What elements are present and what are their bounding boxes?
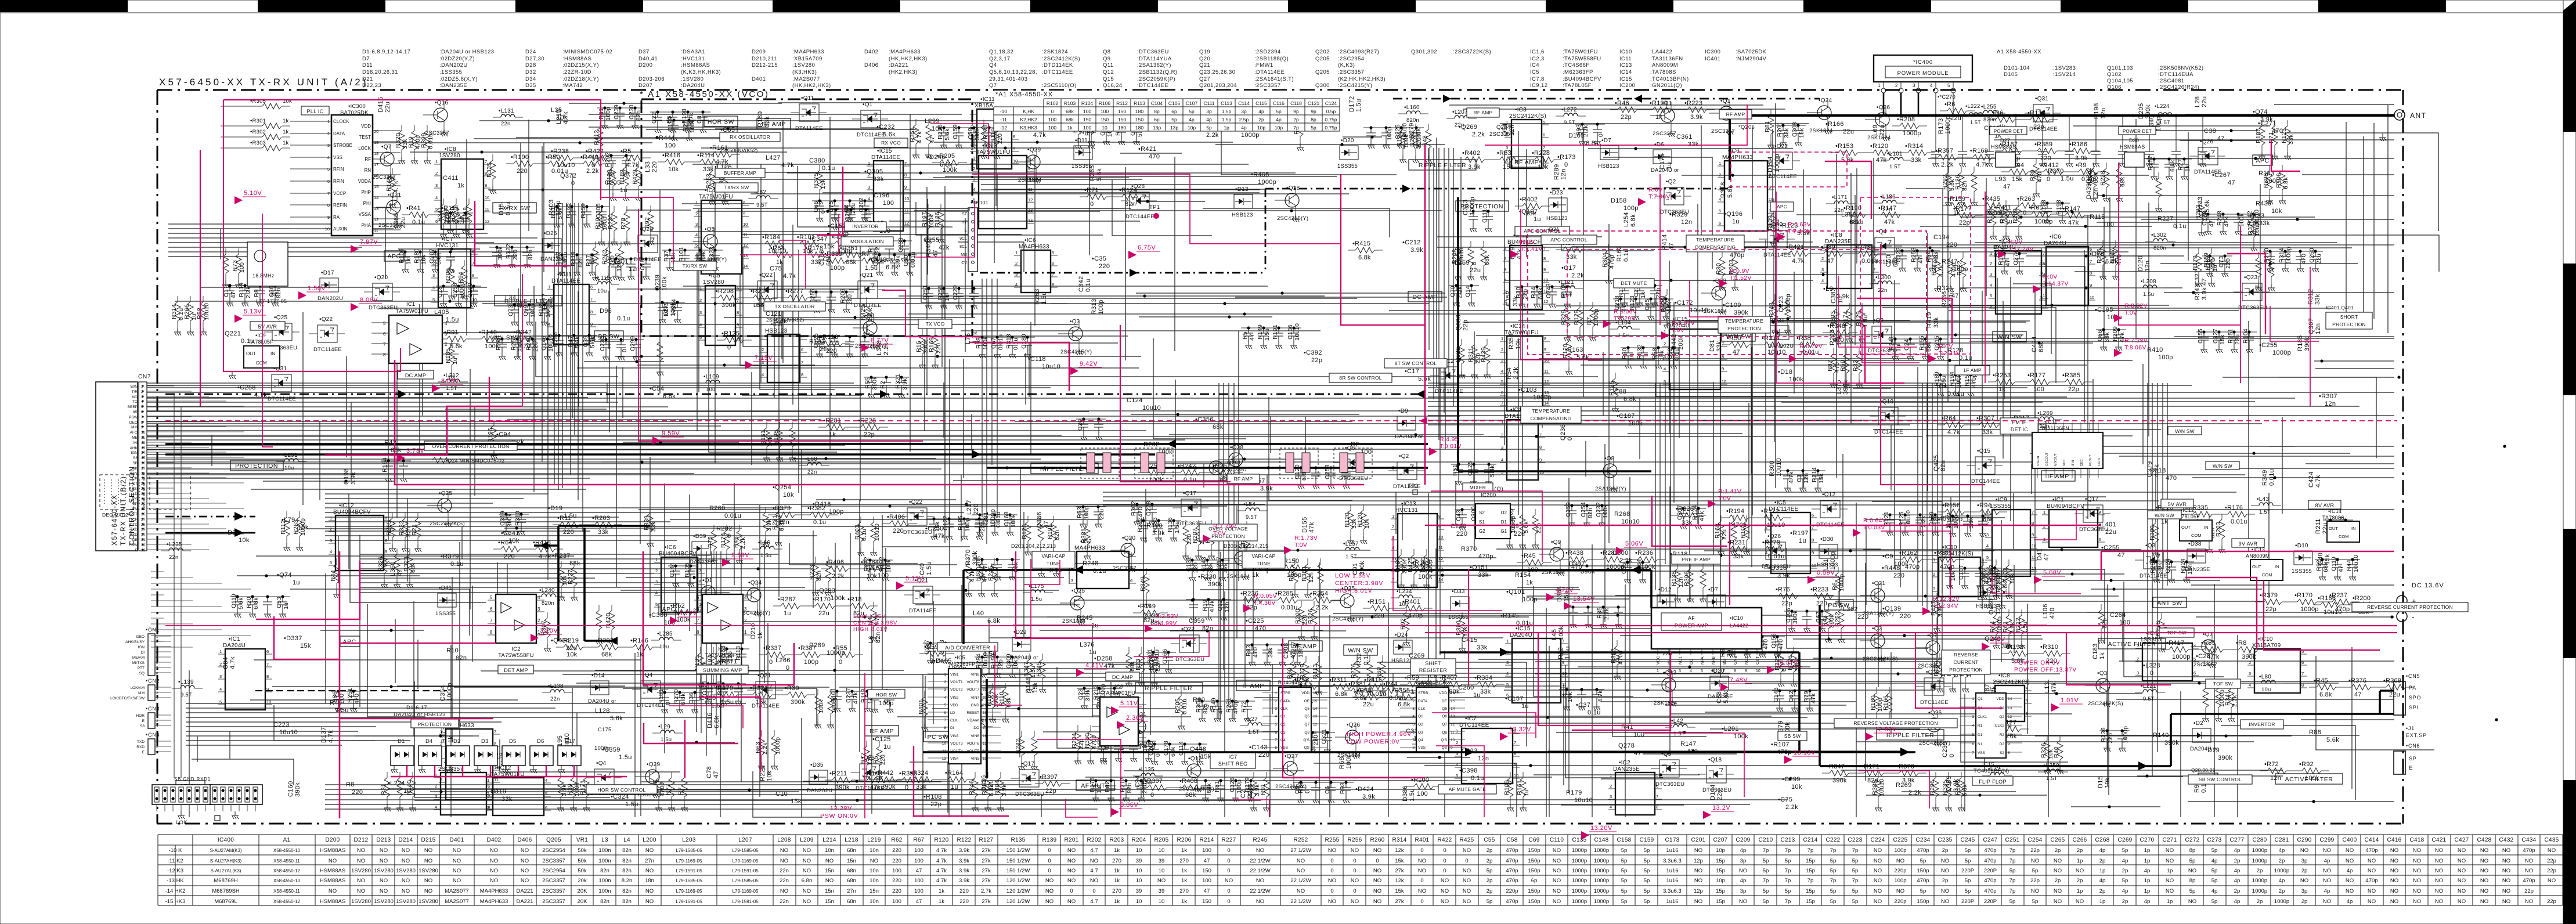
svg-text:C111: C111: [1481, 209, 1488, 223]
svg-text:•IC2: •IC2: [1080, 539, 1092, 545]
svg-text:•Q22: •Q22: [909, 499, 922, 506]
svg-text:9: 9: [385, 549, 387, 554]
svg-text:22p: 22p: [2524, 888, 2534, 894]
svg-text:CLK: CLK: [1280, 707, 1288, 711]
svg-text:R300: R300: [1769, 461, 1776, 477]
svg-text:•CN6: •CN6: [2406, 743, 2420, 749]
svg-text:•R30: •R30: [785, 685, 799, 692]
svg-text:82n: 82n: [600, 868, 609, 874]
svg-text:ME: ME: [132, 436, 138, 440]
svg-text:100: 100: [1633, 731, 1644, 738]
svg-text:•R197: •R197: [1790, 530, 1809, 537]
svg-text:1000p: 1000p: [2300, 606, 2319, 613]
svg-text:C115: C115: [1255, 100, 1267, 106]
svg-text:1000p: 1000p: [1572, 868, 1587, 874]
svg-text:NO: NO: [1045, 898, 1054, 905]
svg-text:ANT: ANT: [2410, 111, 2427, 120]
svg-text:10p: 10p: [1188, 125, 1196, 131]
svg-text:IC6: IC6: [1114, 684, 1123, 690]
svg-text:1F AMP: 1F AMP: [1963, 367, 1982, 373]
svg-text:5p: 5p: [2122, 847, 2128, 854]
svg-text:6: 6: [1543, 132, 1545, 138]
svg-text::2SC3722K(S): :2SC3722K(S): [1453, 49, 1491, 55]
svg-text:D210,211: D210,211: [752, 56, 777, 62]
svg-text:APTT: APTT: [128, 512, 138, 517]
svg-text:Q21: Q21: [1549, 226, 1560, 233]
svg-text:22u: 22u: [1363, 701, 1374, 708]
svg-text:•Q6: •Q6: [864, 313, 875, 319]
svg-text:NO: NO: [780, 888, 788, 894]
svg-text:NO: NO: [803, 858, 811, 864]
svg-text:33k: 33k: [1480, 688, 1491, 695]
svg-text:4: 4: [1456, 762, 1458, 767]
svg-text:22u: 22u: [1879, 125, 1886, 136]
svg-text:10: 10: [1136, 898, 1142, 905]
svg-text:GND: GND: [1734, 655, 1738, 665]
svg-text:NO: NO: [424, 847, 432, 854]
svg-text:150: 150: [1202, 868, 1211, 874]
svg-text:6.8k: 6.8k: [2319, 691, 2332, 698]
svg-text:R19: R19: [1202, 600, 1208, 611]
svg-text:4: 4: [1982, 557, 1984, 562]
svg-text:1000p: 1000p: [1594, 888, 1609, 894]
svg-text:L79-1169-05: L79-1169-05: [733, 858, 759, 864]
svg-text:150 1/2W: 150 1/2W: [1006, 868, 1030, 874]
svg-text:1.5T: 1.5T: [1673, 731, 1685, 737]
svg-text:•C118: •C118: [1028, 356, 1046, 363]
svg-text:2: 2: [2040, 259, 2043, 264]
svg-text:68k: 68k: [1213, 424, 1224, 431]
svg-text:3: 3: [435, 183, 438, 188]
svg-text:•R184: •R184: [762, 234, 780, 241]
svg-text:DTC363EU: DTC363EU: [1655, 781, 1684, 788]
svg-text:L79-1591-05: L79-1591-05: [676, 868, 702, 874]
svg-text:BU4094BCFV: BU4094BCFV: [2047, 503, 2084, 510]
svg-text:5: 5: [1719, 208, 1721, 214]
svg-text:68k: 68k: [1185, 792, 1196, 799]
svg-text:5p: 5p: [1763, 898, 1769, 905]
svg-text:L40: L40: [973, 610, 984, 617]
svg-text:R:0V: R:0V: [1521, 239, 1535, 246]
svg-text:TA75W558FU: TA75W558FU: [705, 652, 740, 659]
svg-text:R186: R186: [934, 212, 941, 227]
svg-text:•Q7: •Q7: [1927, 633, 1938, 639]
svg-text:C327: C327: [2194, 270, 2201, 286]
svg-text:C94: C94: [1134, 775, 1141, 788]
svg-text:100p: 100p: [1098, 299, 1105, 315]
svg-text:NO: NO: [1441, 888, 1449, 894]
svg-text:R194: R194: [1396, 132, 1403, 147]
svg-text:L28: L28: [2194, 96, 2201, 107]
svg-text:33k: 33k: [1716, 341, 1723, 352]
svg-text:NO: NO: [2166, 847, 2174, 854]
svg-text:R230: R230: [607, 214, 614, 229]
svg-text:270: 270: [1179, 858, 1189, 864]
svg-text:100: 100: [1202, 878, 1211, 884]
svg-text:NO: NO: [402, 888, 410, 894]
svg-text:•L101: •L101: [1887, 151, 1903, 157]
svg-text:•R334: •R334: [1474, 674, 1492, 681]
svg-text:19: 19: [374, 140, 378, 145]
svg-text:C9: C9: [1294, 786, 1301, 794]
svg-text:8.06V: 8.06V: [1120, 802, 1138, 808]
svg-text:*IC400: *IC400: [1913, 59, 1933, 66]
svg-text:22u: 22u: [2315, 254, 2322, 264]
svg-text:5: 5: [432, 297, 435, 302]
svg-text:•C324: •C324: [611, 793, 629, 800]
svg-text:R175: R175: [1089, 777, 1096, 792]
svg-text:•IC10: •IC10: [1730, 615, 1743, 621]
svg-text:2p: 2p: [1487, 858, 1493, 864]
svg-text:1.5u: 1.5u: [760, 553, 771, 559]
svg-text:1: 1: [699, 286, 702, 291]
svg-text:13p: 13p: [1170, 125, 1178, 131]
svg-text:2SK508NV(K52): 2SK508NV(K52): [766, 317, 804, 323]
svg-text:•Q196: •Q196: [1724, 211, 1742, 218]
svg-text:2p: 2p: [2234, 888, 2241, 894]
svg-text:50k: 50k: [578, 858, 587, 864]
svg-text:•Q269: •Q269: [1459, 124, 1477, 131]
svg-text:D133: D133: [2197, 197, 2204, 213]
svg-text:IC11: IC11: [1619, 56, 1632, 62]
svg-text::2SK508NV(K52): :2SK508NV(K52): [2158, 65, 2203, 71]
svg-text:10u10: 10u10: [1621, 518, 1640, 525]
svg-text:•R354: •R354: [1310, 590, 1328, 597]
svg-text:1000p: 1000p: [446, 683, 453, 701]
svg-text:1: 1: [968, 208, 970, 212]
svg-text:47: 47: [1204, 888, 1210, 894]
svg-text::DAN235E: :DAN235E: [439, 82, 467, 89]
svg-text:R413: R413: [1312, 664, 1319, 679]
svg-text:•L291: •L291: [1722, 726, 1739, 732]
svg-text:5p: 5p: [1644, 868, 1650, 874]
svg-text:390k: 390k: [1208, 581, 1222, 588]
svg-text:8T SW CONTROL: 8T SW CONTROL: [1395, 360, 1437, 366]
svg-text:68k: 68k: [2092, 172, 2099, 183]
svg-text:0: 0: [621, 349, 628, 352]
svg-text:0.1u: 0.1u: [412, 219, 425, 226]
svg-text:Q425: Q425: [1933, 455, 1940, 471]
svg-text:0.1u: 0.1u: [1588, 709, 1601, 716]
svg-text:LOW:1.55V: LOW:1.55V: [1335, 572, 1370, 579]
svg-text:1SV280: 1SV280: [439, 153, 460, 159]
svg-text:•R357: •R357: [1935, 147, 1953, 154]
svg-text:0: 0: [571, 180, 575, 187]
svg-text:5p: 5p: [1189, 109, 1195, 114]
svg-text:•Q8: •Q8: [1604, 456, 1615, 462]
svg-text:POWER MODULE: POWER MODULE: [1897, 70, 1949, 77]
svg-text:27k: 27k: [1395, 868, 1404, 874]
svg-text:4: 4: [432, 285, 435, 290]
svg-text:•L42: •L42: [1671, 718, 1683, 724]
svg-text::DAN202U: :DAN202U: [439, 62, 468, 68]
svg-text:1SV280: 1SV280: [396, 868, 416, 874]
svg-text:1SV280: 1SV280: [418, 898, 438, 905]
svg-text:C205: C205: [1148, 741, 1154, 756]
svg-text:1p: 1p: [2144, 888, 2151, 894]
svg-text:100p: 100p: [879, 700, 894, 707]
svg-text:100p: 100p: [1894, 847, 1906, 854]
svg-text:MODULATION: MODULATION: [850, 239, 884, 244]
svg-text:R198: R198: [2055, 200, 2062, 215]
svg-text:4p: 4p: [2234, 847, 2241, 854]
svg-text:R245: R245: [1077, 615, 1093, 622]
svg-text:R314: R314: [171, 304, 178, 319]
svg-text:K,HK: K,HK: [1023, 109, 1034, 114]
svg-text:R81: R81: [1214, 781, 1221, 792]
svg-text:1000p: 1000p: [1594, 898, 1609, 905]
svg-text:22p: 22p: [2265, 606, 2276, 613]
svg-text:•L240: •L240: [539, 587, 555, 594]
svg-text:NO: NO: [1373, 888, 1381, 894]
svg-text:•Q24: •Q24: [748, 580, 762, 586]
svg-text:0.59V: 0.59V: [1817, 569, 1835, 576]
svg-text::02DZ5.6(X,Y): :02DZ5.6(X,Y): [439, 76, 478, 82]
svg-text:5.06V: 5.06V: [1625, 540, 1643, 547]
svg-text:L366: L366: [393, 213, 400, 228]
svg-text:0: 0: [1048, 847, 1051, 854]
svg-text:R320: R320: [395, 133, 402, 148]
svg-text:470p: 470p: [1940, 564, 1954, 571]
svg-text:•R379: •R379: [2260, 592, 2278, 599]
svg-text:•R219: •R219: [561, 637, 579, 644]
svg-text:22p: 22p: [2101, 618, 2108, 629]
svg-text:2SC2954: 2SC2954: [542, 847, 565, 854]
svg-text:R204: R204: [1131, 837, 1146, 843]
svg-text:•R223: •R223: [1684, 100, 1702, 107]
svg-text:C45: C45: [1644, 299, 1651, 311]
svg-text:6.8k: 6.8k: [680, 693, 687, 705]
svg-text:T:0V: T:0V: [1799, 350, 1812, 357]
svg-text:NO: NO: [1351, 898, 1359, 905]
svg-text:MA2S077: MA2S077: [445, 888, 469, 894]
svg-text:DAN235E: DAN235E: [1613, 766, 1640, 773]
svg-text:•IC8: •IC8: [445, 146, 456, 153]
svg-text:15p: 15p: [1806, 898, 1815, 905]
svg-text:D2: D2: [2000, 742, 2005, 746]
svg-text:R213: R213: [981, 780, 988, 795]
svg-text:(HK,HK2,HK3): (HK,HK2,HK3): [889, 56, 928, 62]
svg-text:9: 9: [904, 185, 907, 190]
svg-text:2SC2412K(S): 2SC2412K(S): [2088, 701, 2123, 707]
svg-text:•R194: •R194: [1726, 508, 1744, 515]
svg-text:M62363FP: M62363FP: [949, 661, 976, 667]
svg-text:•IC300: •IC300: [348, 103, 366, 110]
svg-text:0: 0: [1070, 888, 1073, 894]
svg-text:22p: 22p: [930, 801, 941, 808]
svg-text:C159: C159: [1639, 837, 1654, 843]
svg-text:TXD: TXD: [130, 528, 138, 532]
svg-text:R6: R6: [1831, 582, 1838, 590]
svg-text:6.8n: 6.8n: [802, 878, 813, 884]
svg-text:D30: D30: [2129, 138, 2139, 143]
svg-text:7: 7: [494, 729, 496, 734]
svg-text:3p: 3p: [1206, 109, 1212, 114]
svg-text:150 1/2W: 150 1/2W: [1006, 847, 1030, 854]
svg-text:2SK1824: 2SK1824: [1809, 128, 1833, 134]
svg-text:0: 0: [1443, 847, 1446, 854]
svg-text:470: 470: [2300, 254, 2307, 264]
svg-text:C223: C223: [1848, 837, 1862, 843]
svg-text:10u10: 10u10: [2353, 555, 2359, 572]
svg-text:CLOCK: CLOCK: [333, 119, 349, 124]
svg-text:COM: COM: [256, 360, 267, 366]
svg-text:PRE IF AMP: PRE IF AMP: [1682, 557, 1711, 562]
svg-text:D200: D200: [638, 62, 652, 68]
svg-text:A/D CONVERTER: A/D CONVERTER: [945, 645, 990, 651]
svg-text:1k: 1k: [1181, 878, 1187, 884]
svg-text:C435: C435: [2544, 837, 2559, 843]
svg-text:220: 220: [826, 348, 837, 355]
svg-text:1u: 1u: [403, 788, 411, 795]
svg-text:AN8009M: AN8009M: [2246, 553, 2270, 559]
svg-text:4: 4: [944, 696, 946, 700]
svg-text:5p: 5p: [1852, 888, 1859, 894]
svg-text:5.6k: 5.6k: [574, 336, 581, 348]
svg-text:20K: 20K: [578, 898, 588, 905]
svg-text:5: 5: [1412, 723, 1415, 727]
svg-text:2SC3357: 2SC3357: [542, 878, 565, 884]
svg-text:470: 470: [1762, 639, 1769, 649]
svg-text:C208: C208: [1283, 643, 1290, 659]
svg-text:R329: R329: [1560, 310, 1567, 325]
svg-text:T:12.34V: T:12.34V: [1933, 602, 1958, 609]
svg-text:0.01u: 0.01u: [1768, 553, 1785, 560]
svg-text:D415: D415: [377, 97, 384, 113]
svg-text:39: 39: [1136, 888, 1142, 894]
svg-text:15k: 15k: [300, 643, 311, 649]
svg-text:DAN235E: DAN235E: [2185, 566, 2210, 573]
svg-text:Q301,302: Q301,302: [1411, 49, 1437, 55]
svg-text:C228: C228: [1145, 501, 1152, 516]
svg-text:1k: 1k: [1067, 125, 1073, 131]
svg-text:T:7.4.3V: T:7.4.3V: [1788, 228, 1812, 235]
svg-text:3: 3: [1933, 586, 1935, 591]
svg-text:14: 14: [1028, 218, 1033, 223]
svg-text:6: 6: [545, 805, 547, 810]
svg-text::GN2011(Q): :GN2011(Q): [1650, 82, 1682, 89]
svg-text:R103: R103: [1064, 100, 1076, 106]
svg-text:0: 0: [1465, 858, 1468, 864]
svg-text:•Q17: •Q17: [1021, 761, 1034, 767]
svg-text:•IC10: •IC10: [1942, 544, 1957, 551]
svg-text:•L328: •L328: [2143, 662, 2160, 669]
svg-text:3.10V: 3.10V: [540, 627, 558, 634]
svg-text:4: 4: [1015, 282, 1018, 287]
svg-text:NO: NO: [1694, 878, 1702, 884]
svg-text:L77-1777-05: L77-1777-05: [256, 298, 287, 304]
svg-text:15p: 15p: [1716, 898, 1725, 905]
svg-text:D96: D96: [600, 308, 612, 315]
svg-text:D203-206: D203-206: [638, 76, 665, 82]
svg-text:10: 10: [1756, 669, 1760, 673]
svg-text:4p: 4p: [2234, 898, 2241, 905]
svg-text:1.5T: 1.5T: [2046, 775, 2058, 782]
svg-text:5p: 5p: [1487, 898, 1493, 905]
svg-text:POWER DET: POWER DET: [2123, 129, 2152, 134]
svg-text:R47: R47: [567, 335, 574, 347]
svg-text:2.2k: 2.2k: [1472, 131, 1485, 138]
svg-text:DA204U: DA204U: [2044, 240, 2066, 247]
svg-text:1k: 1k: [939, 898, 944, 905]
svg-text:C268: C268: [2095, 837, 2109, 843]
svg-text:1000p: 1000p: [2272, 349, 2291, 356]
svg-text:R55: R55: [864, 377, 871, 389]
svg-text:R200: R200: [445, 268, 452, 283]
svg-text:0.1u: 0.1u: [1085, 279, 1092, 292]
svg-text:68n: 68n: [847, 868, 856, 874]
svg-text:47: 47: [1217, 707, 1224, 714]
svg-text:CV: CV: [961, 261, 967, 265]
svg-text:3.9k: 3.9k: [2075, 155, 2088, 162]
svg-text:Q3: Q3: [1418, 731, 1423, 735]
svg-text:•R190: •R190: [511, 154, 529, 161]
svg-text:R180: R180: [1870, 695, 1877, 710]
svg-text:6.8k: 6.8k: [2169, 160, 2176, 172]
svg-text:14: 14: [1313, 707, 1318, 711]
svg-text:2: 2: [1990, 261, 1992, 266]
svg-text:5p: 5p: [1644, 888, 1650, 894]
svg-text:DTC114EE: DTC114EE: [857, 132, 885, 138]
svg-text:15: 15: [374, 184, 378, 189]
svg-text:4.7k: 4.7k: [626, 162, 639, 169]
svg-text:33k: 33k: [1783, 128, 1790, 138]
svg-text:(HK,HK2,HK3): (HK,HK2,HK3): [792, 82, 831, 89]
svg-text:C73: C73: [507, 305, 514, 316]
svg-text:•L169: •L169: [1452, 259, 1470, 266]
svg-text:0: 0: [905, 784, 908, 791]
svg-text:1000p: 1000p: [1241, 132, 1260, 139]
svg-text:82n: 82n: [1054, 530, 1060, 540]
svg-text:1.5u: 1.5u: [926, 562, 933, 575]
svg-text:R339: R339: [643, 515, 650, 530]
svg-text:Q'S: Q'S: [1441, 738, 1447, 742]
svg-text:Q4: Q4: [989, 62, 997, 68]
svg-text:82n: 82n: [1126, 783, 1133, 793]
svg-text:10: 10: [1159, 898, 1165, 905]
svg-text:•D78: •D78: [2090, 251, 2104, 258]
svg-text:R241: R241: [1888, 335, 1895, 351]
svg-text:DTC144EE: DTC144EE: [1125, 214, 1154, 220]
svg-text:•R71: •R71: [1084, 187, 1099, 194]
svg-text:5p: 5p: [1487, 868, 1493, 874]
svg-text:82n: 82n: [1125, 201, 1136, 208]
svg-text:100p: 100p: [964, 518, 971, 532]
svg-text:8: 8: [383, 352, 386, 358]
svg-text:100: 100: [1048, 117, 1056, 122]
svg-text:E: E: [142, 719, 145, 723]
svg-text:1: 1: [868, 161, 870, 166]
svg-text:2p: 2p: [2055, 878, 2061, 884]
svg-text:D203,204,212,213: D203,204,212,213: [1011, 543, 1056, 549]
svg-text:0.5p: 0.5p: [1326, 109, 1336, 114]
svg-text:R251: R251: [2227, 329, 2234, 344]
svg-text:(HK2,HK3): (HK2,HK3): [889, 69, 918, 75]
svg-text:8: 8: [385, 538, 387, 543]
svg-text:6: 6: [1812, 512, 1814, 518]
svg-text:11: 11: [1028, 187, 1033, 192]
svg-text:C159: C159: [952, 124, 959, 139]
svg-text:NO: NO: [1256, 878, 1264, 884]
svg-text:D172: D172: [1348, 96, 1355, 113]
svg-text:NO: NO: [2435, 878, 2443, 884]
svg-text:2SC4215(Y): 2SC4215(Y): [1060, 349, 1092, 355]
svg-text::BU4094BCFV: :BU4094BCFV: [1563, 76, 1601, 82]
svg-text:R326: R326: [2040, 743, 2047, 758]
svg-text:NO: NO: [2390, 858, 2398, 864]
svg-text:NO: NO: [2323, 898, 2331, 905]
svg-text:10: 10: [1769, 197, 1773, 202]
